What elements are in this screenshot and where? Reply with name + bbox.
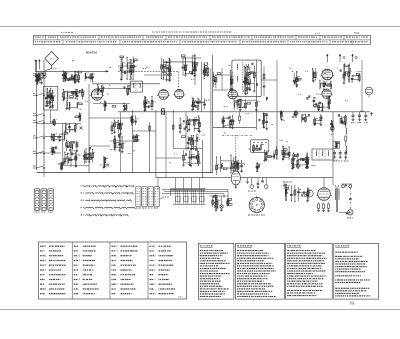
ratio det internal coils <box>236 64 239 69</box>
antenna diamond symbol <box>45 52 58 66</box>
cathode resistor row <box>318 203 320 205</box>
page border bottom line <box>0 309 400 311</box>
FM tuner mid cluster <box>293 73 295 86</box>
switch contact dot-matrix table <box>135 186 159 209</box>
header row1 text <box>35 37 36 38</box>
wire vertical x277 <box>276 112 278 160</box>
band coil cluster row1 <box>62 71 64 81</box>
ratio detector transformer box <box>232 60 261 97</box>
wire bottom right link <box>339 211 350 213</box>
wire vertical x89 <box>88 84 90 173</box>
wire vertical x173.2 <box>172 110 174 149</box>
AVC cluster 3 <box>114 136 116 149</box>
cluster x233 y160 <box>237 162 239 172</box>
cluster under V6 b <box>318 103 320 111</box>
wire vertical x132.4 <box>131 110 133 173</box>
cluster x327 y120 <box>331 121 333 131</box>
AM cluster row d <box>66 140 68 151</box>
aerial terminal arrows <box>35 60 37 64</box>
cluster x292 y111 <box>294 111 296 117</box>
text above header center <box>151 32 154 33</box>
osc trimmer cluster <box>182 57 184 76</box>
AF cluster <box>183 150 185 165</box>
wire antenna to coil <box>44 66 52 72</box>
wire vertical x212.7 <box>212 55 214 173</box>
cluster below ratio box <box>233 100 235 110</box>
electrolytic caps row 2 <box>334 150 336 153</box>
AM cluster row e <box>51 147 53 155</box>
link wires piano to lamps <box>162 189 228 191</box>
AVC cluster 2 <box>131 116 133 125</box>
piano key switch mechanism <box>171 188 206 190</box>
parts list box NL <box>334 243 379 299</box>
cluster x352 y76 <box>351 75 353 82</box>
dial lamps cluster <box>212 197 214 207</box>
wire bus y83.8 <box>92 83 160 85</box>
tone control dashed box <box>251 140 269 153</box>
tube V5 FM front ECC85 <box>322 69 333 80</box>
wire box to bus <box>50 110 52 124</box>
cluster between ECC85 halves <box>319 80 321 89</box>
wire vertical x62.8 <box>62 123 64 166</box>
wire vertical x195 <box>194 62 196 85</box>
AVC cluster 1 <box>111 121 113 134</box>
parts list box GB <box>198 243 234 299</box>
mixer cathode cluster <box>104 101 106 110</box>
dotted wire y185.8 <box>282 185 291 187</box>
trimmer cluster <box>84 73 86 81</box>
top band link wires <box>118 65 137 67</box>
tube V1 mixer ECH81 <box>91 89 102 100</box>
dash-dot line speaker link <box>349 188 351 209</box>
speaker ground <box>345 212 348 214</box>
svg-text:B5X75A: B5X75A <box>86 51 98 55</box>
tube V4 demod EABC80 <box>228 90 237 99</box>
detector cluster 2 <box>187 136 189 148</box>
wire vertical x333 <box>332 112 334 178</box>
wire vertical x155.9 <box>155 110 157 178</box>
filter choke vertical chain <box>345 124 347 128</box>
dashed vertical x235.7 <box>235 135 237 172</box>
wire stub bottom left <box>43 173 45 178</box>
parts list box F <box>236 243 285 299</box>
cluster x196 y62 <box>203 64 205 79</box>
text above header left <box>61 32 62 33</box>
cap right of box <box>266 97 268 100</box>
cluster top right power x276 <box>279 112 281 119</box>
band coil cluster row2 <box>63 90 65 100</box>
rectifier cluster <box>291 154 293 168</box>
AM coils cluster row a <box>52 119 54 124</box>
power transformer box <box>312 149 333 160</box>
cluster x314 y116 <box>314 117 316 125</box>
AF driver cluster <box>284 185 286 201</box>
small box x333 y141 <box>333 142 340 149</box>
switch unit 3-column block <box>34 189 40 211</box>
cluster x97 y156 <box>103 157 105 167</box>
AM cluster row g <box>60 163 62 169</box>
FM tuner left coil <box>312 69 314 81</box>
extra vertical wires mid <box>120 112 122 173</box>
vertical string x264 <box>263 66 265 96</box>
tube V3 IF EF89 <box>175 89 184 98</box>
tuning gang dashed link horizontal <box>118 70 179 72</box>
socket label <box>248 215 250 216</box>
svg-text:1Pu: 1Pu <box>50 59 54 61</box>
tube socket bottom view <box>249 197 264 212</box>
cluster x70 y114 <box>78 113 80 121</box>
detector cluster big <box>179 118 181 131</box>
cluster under V6 <box>313 98 315 108</box>
magic eye EM80 <box>365 87 373 95</box>
chassis bus y172.5 <box>37 172 213 174</box>
small part x170 y126 <box>172 125 174 129</box>
AM cluster row f <box>64 152 66 165</box>
page border top line <box>0 26 400 28</box>
cluster x273 y147 volume <box>276 146 278 159</box>
wire top bus y71 <box>37 70 109 72</box>
arrow up right edge <box>371 113 373 117</box>
svg-text:5518: 5518 <box>354 32 360 35</box>
FM tuner top feed stubs <box>326 55 328 63</box>
wire vertical x256.3 <box>255 60 257 130</box>
mid-left link wires <box>37 123 82 125</box>
small part x146 y126 <box>149 126 151 130</box>
FM tuner right cluster <box>343 65 345 83</box>
cluster x222 y116 <box>222 117 224 127</box>
output tube top feed <box>323 178 325 188</box>
cluster x111 y104 <box>123 103 125 110</box>
cluster left of ratio box <box>213 72 215 87</box>
cluster x251 y163 <box>256 163 258 171</box>
output transformer <box>335 188 337 213</box>
cluster x300 y115 <box>301 114 303 122</box>
parts value table bottom left <box>39 242 187 299</box>
left selector bus lines <box>36 60 38 170</box>
wire vertical x149.7 <box>149 122 151 173</box>
tuner unit box <box>44 86 58 110</box>
left bus taps and contacts <box>33 75 37 77</box>
parts list box D <box>286 243 333 299</box>
IF transformer T1 <box>131 81 143 92</box>
aerial coupling coil L1 <box>39 73 44 78</box>
mixer grid cluster <box>97 85 99 94</box>
coupling cluster <box>297 187 299 201</box>
vertical wire x362 <box>361 60 363 112</box>
scattered value labels <box>298 94 299 95</box>
output jacks <box>342 185 345 188</box>
driver tube half <box>306 190 313 197</box>
small text right of socket <box>283 182 285 183</box>
loudspeaker <box>348 210 353 215</box>
electrolytic caps row 1 <box>352 112 354 115</box>
cluster x216 y156 pot <box>216 157 218 175</box>
pilot lamp drops from chassis bus <box>247 178 249 182</box>
tuning gang dashed link vertical <box>178 71 180 91</box>
tube V7 AF amp UBC41 <box>231 171 240 185</box>
FM input cluster <box>120 59 122 79</box>
IF2 area under tubes <box>144 96 146 110</box>
wire vertical x202.5 <box>202 140 204 178</box>
AM cluster row b with X <box>64 123 66 131</box>
switch rows S1-S5 <box>81 185 82 186</box>
piano mech connectors to bus <box>175 178 177 189</box>
HT bus y111.8 <box>118 111 213 113</box>
cluster x83 y148 <box>83 150 85 164</box>
chassis bus y177.7 <box>156 177 333 179</box>
tube V2 IF ECH81 <box>159 90 169 100</box>
cluster x302 y158 <box>305 159 307 168</box>
wire osc top y61.9 <box>163 61 195 63</box>
cluster x225 y199 <box>227 199 229 207</box>
AVC cluster 4 <box>133 134 135 142</box>
bus y127.3 <box>213 126 256 128</box>
part x261 y111 <box>262 113 264 127</box>
dash-dot mech link AM-FM <box>222 134 252 136</box>
header title block <box>34 35 371 44</box>
header row2 text <box>35 41 36 42</box>
tube V6 ECC85 second half <box>322 89 331 98</box>
AM cluster row c <box>51 134 53 140</box>
wire vertical x201.4 <box>200 62 202 112</box>
lamp X symbols <box>214 205 217 208</box>
speaker cap <box>349 198 352 200</box>
output tube EL84 <box>318 188 331 201</box>
oscillator coil chain <box>161 58 163 78</box>
junction cluster x343 <box>340 116 342 124</box>
svg-text:4.54: 4.54 <box>315 33 320 36</box>
part x239 y115 <box>239 116 241 121</box>
